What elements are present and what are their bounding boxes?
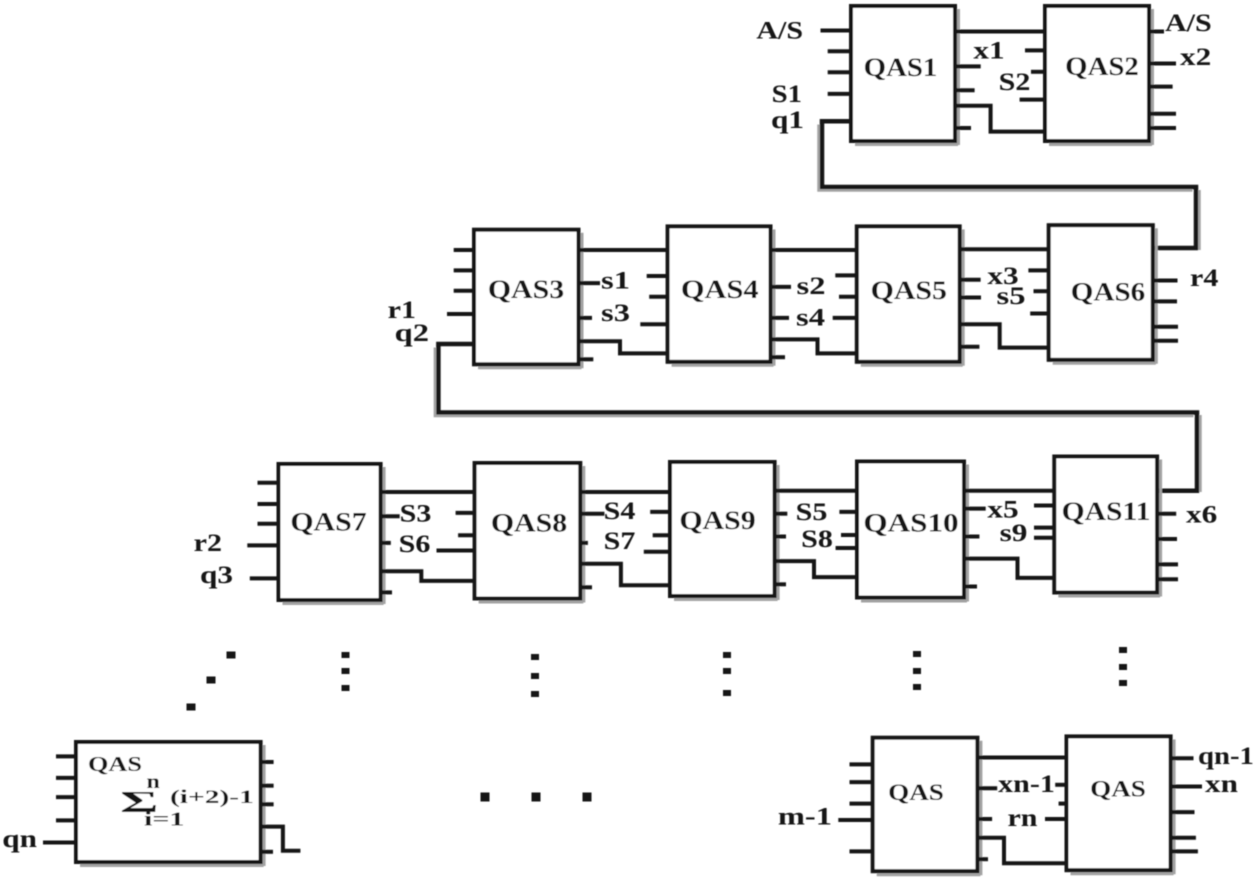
pin stub s9 upper into QAS11 bbox=[1034, 526, 1054, 530]
pin stub QAS8 right bottom bbox=[580, 585, 592, 589]
pin stub QAS6 right 2 bbox=[1153, 299, 1177, 303]
pin stub QASr left 2 bbox=[1059, 802, 1067, 806]
pin stub QAS7 left 3 bbox=[258, 522, 279, 526]
dots column 4 bbox=[913, 651, 921, 657]
pin stub QAS9 right bottom bbox=[775, 582, 786, 586]
pin stub S4 (QAS8 right) bbox=[580, 512, 604, 516]
svg-text:rn: rn bbox=[1007, 803, 1037, 831]
svg-text:qn: qn bbox=[2, 826, 37, 853]
svg-text:r4: r4 bbox=[1190, 263, 1219, 291]
pin stub QAS1 left 3 bbox=[828, 70, 851, 74]
pin stub QASsum right bottom bbox=[261, 850, 273, 854]
pin stub S7 (QAS8 right) bbox=[580, 541, 588, 545]
pin stub QAS4 left 3 bbox=[640, 322, 667, 326]
pin stub QAS4 left 2 bbox=[649, 295, 667, 299]
pin stub S6 (QAS7 right) bbox=[381, 541, 391, 545]
pin stub QAS6 left 1 bbox=[1028, 268, 1048, 272]
svg-text:xn: xn bbox=[1205, 771, 1238, 798]
wire rn into QASr bbox=[1045, 817, 1067, 821]
wire QAS4 to QAS5 top bbox=[771, 248, 857, 252]
pin stub x3 (QAS5 right) bbox=[960, 278, 981, 282]
pin stub QAS5 right bottom bbox=[960, 345, 980, 349]
block QAS11 bbox=[1054, 457, 1160, 597]
svg-text:m-1: m-1 bbox=[778, 803, 832, 831]
pin stub QASsum right 1 bbox=[261, 760, 274, 764]
pin stub x5 (QAS10 right) bbox=[964, 507, 986, 511]
pin stub xn (QASr right) bbox=[1171, 785, 1202, 789]
pin stub QAS3 left 2 bbox=[454, 268, 474, 272]
pin stub QAS6 right 3 bbox=[1153, 325, 1178, 329]
svg-text:QAS4: QAS4 bbox=[681, 276, 759, 304]
wire step QAS1 to QAS2 bbox=[955, 106, 1045, 132]
dots diagonal (continuation below QAS7) bbox=[227, 652, 236, 659]
block QAS (bottom right) bbox=[1067, 736, 1175, 874]
pin stub QAS2 right A/S bbox=[1149, 30, 1164, 34]
wire step QAS5 to QAS6 bbox=[960, 324, 1049, 347]
wire s4 into QAS5 bbox=[833, 316, 857, 320]
svg-text:S7: S7 bbox=[604, 526, 636, 554]
block QAS3 bbox=[474, 230, 582, 369]
svg-text:s4: s4 bbox=[796, 304, 825, 332]
svg-text:A/S: A/S bbox=[1165, 8, 1212, 36]
pin stub QAS3 left 1 bbox=[454, 248, 474, 252]
wire A/S to QAS1 bbox=[821, 29, 852, 33]
wire QAS9 to QAS10 top bbox=[775, 489, 857, 493]
svg-text:S8: S8 bbox=[801, 524, 833, 552]
block QAS6 bbox=[1049, 225, 1157, 364]
svg-text:s5: s5 bbox=[997, 282, 1026, 310]
wire QAS3 to QAS4 top bbox=[579, 248, 668, 252]
pin stub QAS11 right 2 bbox=[1157, 537, 1177, 541]
dots column 5 bbox=[1119, 647, 1127, 653]
pin stub x1 (QAS1 right) bbox=[955, 64, 981, 68]
svg-text:QAS7: QAS7 bbox=[290, 508, 366, 537]
wire step QAS9 to QAS10 bbox=[775, 561, 857, 577]
svg-text:QAS: QAS bbox=[88, 753, 142, 776]
pin stub QASm right bottom bbox=[977, 857, 988, 861]
pin stub QAS8 left 2 bbox=[458, 533, 475, 537]
wire q2 from QAS3 to QAS11 (long feedback) bbox=[438, 344, 1197, 491]
svg-text:S4: S4 bbox=[604, 496, 636, 524]
pin stub S5 (QAS9 right) bbox=[775, 512, 788, 516]
svg-text:QAS1: QAS1 bbox=[864, 53, 938, 81]
block QAS7 bbox=[279, 464, 385, 604]
svg-text:A/S: A/S bbox=[756, 16, 803, 44]
pin stub rn (QASm right) bbox=[977, 817, 992, 821]
pin stub QASm left 2 bbox=[850, 780, 873, 784]
wire S6 into QAS8 bbox=[437, 549, 475, 553]
pin stub QAS6 left 3 bbox=[1030, 312, 1049, 316]
pin stub QASm left 3 bbox=[850, 802, 873, 806]
pin stub QAS5 left 1 bbox=[835, 273, 857, 277]
pin stub QAS4 right bottom bbox=[771, 355, 786, 359]
svg-text:S5: S5 bbox=[796, 497, 828, 525]
pin stub QAS7 left 1 bbox=[258, 481, 279, 485]
wire q1 from QAS1 to QAS6 (long feedback) bbox=[822, 121, 1196, 248]
pin stub QAS10 left 1 bbox=[839, 510, 857, 514]
pin stub QAS2 right 3 bbox=[1149, 85, 1173, 89]
pin stub QAS7 right bottom bbox=[381, 590, 392, 594]
pin stub S3 (QAS7 right) bbox=[381, 514, 400, 518]
wire step QAS10 to QAS11 bbox=[964, 559, 1054, 578]
pin stub QASm left 5 bbox=[850, 849, 873, 853]
pin stub QAS10 right bottom bbox=[964, 585, 977, 589]
svg-text:s9: s9 bbox=[1000, 520, 1028, 547]
wire q3 to QAS7 bbox=[250, 576, 279, 580]
wire QAS1 to QAS2 top bbox=[955, 30, 1045, 34]
pin stub QAS4 left 1 bbox=[647, 274, 668, 278]
pin stub QASsum left 1 bbox=[56, 754, 76, 758]
pin stub QASm left 1 bbox=[850, 762, 873, 766]
pin stub xn-1 (QASm right) bbox=[977, 786, 997, 790]
svg-text:x2: x2 bbox=[1180, 44, 1211, 71]
block QAS2 bbox=[1045, 6, 1153, 145]
wire QAS7 to QAS8 top bbox=[381, 490, 475, 494]
svg-text:x1: x1 bbox=[973, 37, 1004, 64]
pin stub QAS2 left 1 bbox=[1025, 48, 1045, 52]
svg-text:QAS5: QAS5 bbox=[871, 277, 947, 306]
wire QAS8 to QAS9 top bbox=[580, 490, 670, 494]
wire step QASm to QASr bbox=[977, 838, 1066, 864]
pin stub QAS11 right 4 bbox=[1157, 577, 1178, 581]
svg-text:r2: r2 bbox=[194, 528, 222, 556]
svg-text:S2: S2 bbox=[999, 67, 1031, 95]
wire step QAS3 to QAS4 bbox=[579, 341, 668, 353]
svg-text:s3: s3 bbox=[601, 299, 630, 327]
pin stub QAS2 right 4 bbox=[1149, 112, 1176, 116]
pin stub QAS9 left 1 bbox=[650, 510, 670, 514]
svg-text:S6: S6 bbox=[399, 529, 431, 557]
svg-text:x6: x6 bbox=[1186, 501, 1217, 528]
svg-text:QAS9: QAS9 bbox=[679, 507, 755, 536]
pin stub QASr right 4 bbox=[1171, 836, 1196, 840]
svg-text:S1: S1 bbox=[772, 80, 802, 108]
wire qn to QASsum bbox=[43, 841, 76, 845]
svg-text:QAS10: QAS10 bbox=[863, 509, 958, 538]
pin stub QASsum left 2 bbox=[56, 776, 76, 780]
pin stub QASsum right 3 bbox=[261, 802, 274, 806]
svg-text:s1: s1 bbox=[601, 267, 630, 295]
block QAS1 bbox=[851, 6, 959, 145]
svg-text:QAS8: QAS8 bbox=[491, 509, 567, 538]
svg-text:S3: S3 bbox=[400, 499, 432, 527]
pin stub s5 (QAS5 right) bbox=[960, 296, 981, 300]
pin stub QAS1 left S1 bbox=[828, 92, 851, 96]
wire step QAS4 to QAS5 bbox=[771, 339, 857, 353]
wire step QAS7 to QAS8 bbox=[381, 571, 475, 581]
pin stub QASsum left 4 bbox=[56, 818, 76, 822]
wire m-1 to QASm bbox=[838, 818, 872, 822]
shadow of q1 wire bbox=[819, 125, 1193, 191]
wire step QASsum output bbox=[261, 827, 301, 851]
pin stub QAS11 left 1 bbox=[1034, 504, 1054, 508]
pin stub QAS1 right bottom bbox=[955, 126, 971, 130]
pin stub QASsum right 2 bbox=[261, 784, 274, 788]
wire r2 to QAS7 bbox=[247, 543, 278, 547]
block QAS5 bbox=[857, 226, 963, 365]
dots column 2 bbox=[531, 654, 539, 660]
svg-text:QAS: QAS bbox=[888, 781, 944, 806]
svg-text:n: n bbox=[147, 770, 160, 793]
pin stub QAS2 left 3 bbox=[1020, 98, 1045, 102]
pin stub x6 (QAS11 right) bbox=[1157, 512, 1176, 516]
dots horizontal (bottom middle) bbox=[481, 793, 490, 802]
block QAS8 bbox=[475, 463, 584, 603]
pin stub S8 (QAS9 right) bbox=[775, 535, 786, 539]
pin stub QASsum left 3 bbox=[56, 795, 76, 799]
wire S8 into QAS10 bbox=[836, 546, 857, 550]
block QAS10 bbox=[857, 462, 968, 602]
svg-text:q1: q1 bbox=[771, 107, 804, 134]
pin stub QAS3 left 3 bbox=[454, 289, 474, 293]
pin stub QAS7 left 2 bbox=[258, 502, 279, 506]
pin stub s9 lower into QAS11 bbox=[1034, 536, 1054, 540]
pin stub QAS6 left 2 bbox=[1034, 289, 1049, 293]
dots column 3 bbox=[723, 652, 731, 658]
wire QAS5 to QAS6 top bbox=[960, 247, 1049, 251]
dots column 1 bbox=[342, 652, 350, 658]
pin stub s1 (QAS3 right) bbox=[579, 281, 601, 285]
pin stub QAS2 right 5 bbox=[1149, 126, 1176, 130]
pin stub QAS8 left 1 bbox=[456, 511, 475, 515]
pin stub QAS6 right 4 bbox=[1153, 339, 1178, 343]
svg-text:(i+2)-1: (i+2)-1 bbox=[170, 787, 254, 808]
pin stub QAS3 left r1 bbox=[447, 312, 474, 316]
pin stub QASr right 5 bbox=[1171, 849, 1198, 853]
svg-text:QAS2: QAS2 bbox=[1065, 52, 1139, 80]
wire step QAS8 to QAS9 bbox=[580, 564, 670, 586]
wire qn-1 from QASr bbox=[1171, 756, 1194, 760]
svg-text:QAS11: QAS11 bbox=[1062, 498, 1151, 527]
pin stub s3 (QAS3 right) bbox=[579, 316, 593, 320]
pin stub x2 bbox=[1149, 62, 1176, 66]
pin stub s4 (QAS4 right) bbox=[771, 316, 790, 320]
pin stub QAS2 left 2 bbox=[1031, 70, 1045, 74]
svg-text:QAS: QAS bbox=[1090, 777, 1146, 802]
svg-text:q3: q3 bbox=[200, 562, 233, 589]
pin stub QAS10 left 2 bbox=[841, 533, 857, 537]
block QAS (bottom middle) bbox=[873, 738, 981, 876]
pin stub r4 (QAS6 right) bbox=[1153, 279, 1178, 283]
svg-text:QAS6: QAS6 bbox=[1071, 277, 1145, 306]
svg-text:QAS3: QAS3 bbox=[488, 276, 564, 305]
block QAS4 bbox=[668, 226, 774, 365]
shadow of q2 wire bbox=[435, 348, 1194, 417]
svg-text:q2: q2 bbox=[395, 319, 429, 347]
svg-text:i=1: i=1 bbox=[144, 807, 184, 830]
pin stub QAS3 right bottom bbox=[579, 357, 594, 361]
block QAS-sum (bottom left) bbox=[76, 742, 264, 866]
pin stub QASr right 3 bbox=[1171, 810, 1195, 814]
pin stub QAS1 right 2 bbox=[955, 88, 975, 92]
pin stub s2 (QAS4 right) bbox=[771, 285, 792, 289]
pin stub QAS10 right 2 bbox=[964, 535, 979, 539]
wire QASm to QASr top bbox=[977, 756, 1066, 760]
pin stub QAS5 left 2 bbox=[839, 295, 857, 299]
svg-text:qn-1: qn-1 bbox=[1198, 742, 1254, 770]
pin stub QAS1 left 2 bbox=[828, 49, 851, 53]
wire xn-1 into QASr bbox=[1055, 783, 1066, 787]
wire S7 into QAS9 bbox=[644, 550, 670, 554]
svg-text:s2: s2 bbox=[797, 272, 826, 300]
svg-text:xn-1: xn-1 bbox=[998, 769, 1055, 797]
pin stub QAS9 left 2 bbox=[653, 533, 670, 537]
wire QAS10 to QAS11 top bbox=[964, 489, 1054, 493]
block QAS9 bbox=[670, 462, 778, 600]
pin stub QAS11 right 3 bbox=[1157, 562, 1178, 566]
